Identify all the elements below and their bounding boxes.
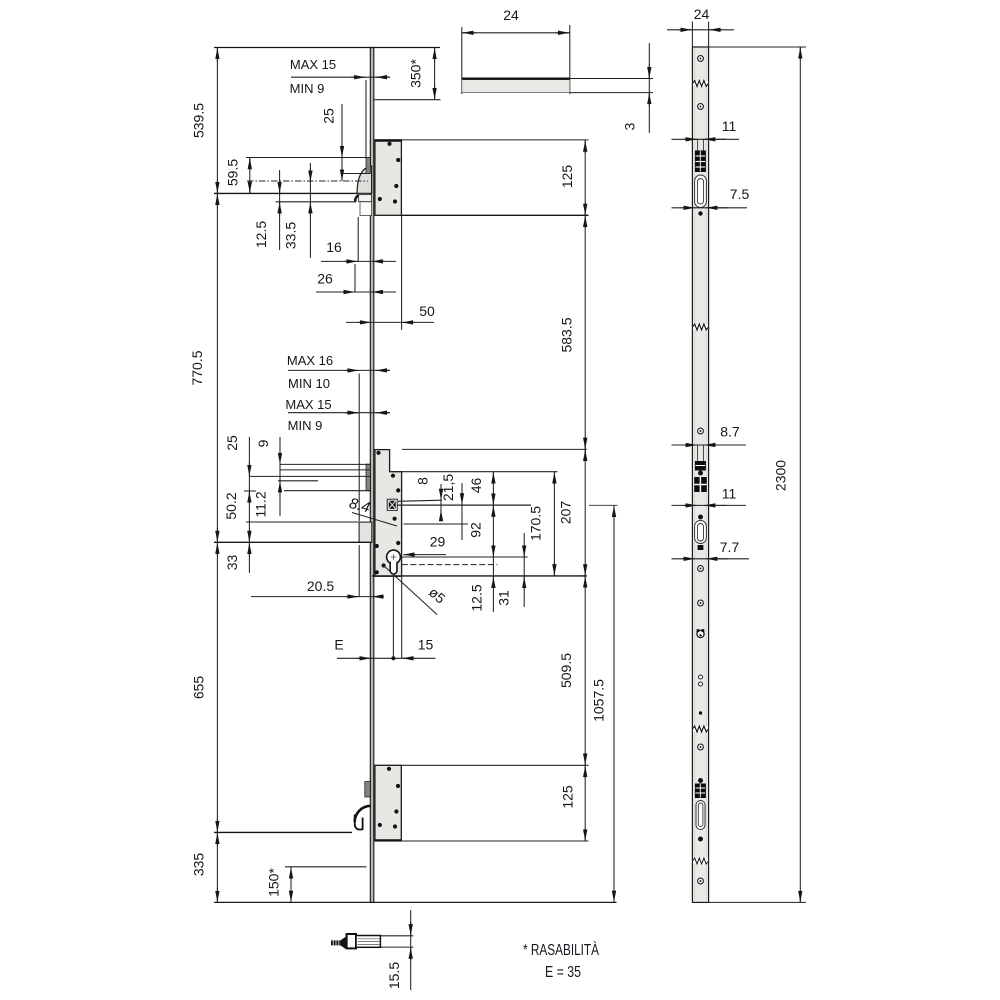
dim 11.2 arrow xyxy=(279,481,281,494)
deadbolt top line xyxy=(246,521,359,523)
svg-text:26: 26 xyxy=(317,271,333,287)
ext lines thickness xyxy=(570,78,653,80)
ext line deadbolt face xyxy=(358,374,360,522)
arrow pair 542.3 xyxy=(216,528,218,542)
mid hook pattern xyxy=(694,477,707,492)
line 350 bottom xyxy=(374,99,440,101)
top slot stadium xyxy=(695,175,707,208)
svg-text:2300: 2300 xyxy=(773,460,789,491)
svg-text:170.5: 170.5 xyxy=(528,506,544,541)
handle follower square xyxy=(387,499,397,510)
svg-text:1057.5: 1057.5 xyxy=(591,679,607,722)
svg-text:33.5: 33.5 xyxy=(283,222,299,249)
small circles pair xyxy=(699,675,703,679)
svg-text:* RASABILITÀ: * RASABILITÀ xyxy=(523,940,599,959)
mid slot stadium xyxy=(695,521,707,544)
svg-text:16: 16 xyxy=(326,239,342,255)
svg-text:21,5: 21,5 xyxy=(440,474,456,501)
faceplate edge view xyxy=(370,48,374,903)
aux latch 2 xyxy=(366,464,370,491)
break line 2 xyxy=(693,325,708,330)
dim 2300 xyxy=(709,46,806,48)
svg-text:8.7: 8.7 xyxy=(720,424,740,440)
svg-text:MIN 9: MIN 9 xyxy=(288,418,323,433)
svg-text:46: 46 xyxy=(468,478,484,494)
svg-text:92: 92 xyxy=(468,522,484,538)
svg-text:11: 11 xyxy=(722,118,737,134)
dim line MAX15/MIN9 xyxy=(291,76,390,78)
svg-text:MAX 15: MAX 15 xyxy=(290,57,336,72)
bottom bolt front xyxy=(695,784,706,799)
arrow pair 193.4 xyxy=(216,180,218,194)
small square below slot xyxy=(698,545,704,550)
svg-text:59.5: 59.5 xyxy=(225,159,241,186)
overall bottom line xyxy=(214,901,617,903)
faceplate strip body xyxy=(692,47,708,902)
top latch slot edges xyxy=(697,140,699,163)
svg-text:509.5: 509.5 xyxy=(558,653,574,688)
svg-text:MIN 10: MIN 10 xyxy=(288,376,330,391)
svg-text:12.5: 12.5 xyxy=(469,584,485,611)
plate section xyxy=(462,79,570,92)
aux latch2 lines xyxy=(280,463,371,465)
bottom box rivets xyxy=(378,767,400,829)
svg-text:29: 29 xyxy=(430,534,446,550)
svg-text:11: 11 xyxy=(722,486,737,502)
case step line ext xyxy=(390,471,558,473)
svg-text:50: 50 xyxy=(419,303,435,319)
top box rivets xyxy=(378,142,401,204)
cylinder center line xyxy=(402,556,528,558)
svg-text:539.5: 539.5 xyxy=(191,103,207,138)
line 150 ref xyxy=(285,866,367,868)
bottom box top line ext xyxy=(401,764,588,766)
svg-text:8: 8 xyxy=(415,477,431,485)
case top line ext xyxy=(402,448,587,450)
arrow top xyxy=(216,48,218,62)
svg-text:207: 207 xyxy=(558,501,574,525)
svg-text:MIN 9: MIN 9 xyxy=(290,81,325,96)
latch bolt 1 xyxy=(357,166,372,193)
screw holes xyxy=(698,56,704,884)
svg-text:7.7: 7.7 xyxy=(720,539,740,555)
boundary line deadbolt bottom xyxy=(214,541,372,543)
svg-text:MAX 15: MAX 15 xyxy=(285,397,331,412)
break line 3 xyxy=(693,727,708,732)
svg-text:335: 335 xyxy=(191,853,207,877)
top line xyxy=(214,47,440,49)
break line 1 xyxy=(693,81,708,86)
euro cylinder xyxy=(387,550,401,564)
case bottom line ext xyxy=(372,575,587,577)
svg-text:3: 3 xyxy=(622,122,638,130)
svg-text:E = 35: E = 35 xyxy=(545,964,581,981)
mid slot edges xyxy=(697,445,699,461)
top latch bolt front xyxy=(695,151,706,173)
svg-text:50.2: 50.2 xyxy=(223,492,239,519)
svg-text:MAX 16: MAX 16 xyxy=(287,353,333,368)
dim line MAX15/MIN9 xyxy=(288,412,390,414)
svg-text:15: 15 xyxy=(418,637,434,653)
top box bottom line ext xyxy=(401,214,588,216)
svg-text:7.5: 7.5 xyxy=(730,186,750,202)
follower axis line xyxy=(398,504,532,506)
small dots xyxy=(698,211,703,841)
mid bolt front xyxy=(695,461,706,471)
latch center line xyxy=(247,180,368,182)
bottom strike box xyxy=(375,765,401,841)
pin1 bottom line xyxy=(276,201,357,203)
arrow bottom xyxy=(216,888,218,902)
ext line aux latch1 face xyxy=(365,80,367,157)
boundary line latch1 bottom xyxy=(214,192,357,194)
deadbolt xyxy=(359,522,372,542)
svg-text:33: 33 xyxy=(224,555,240,571)
svg-text:25: 25 xyxy=(321,108,337,124)
svg-text:9: 9 xyxy=(255,439,271,447)
main lock case xyxy=(375,450,402,577)
svg-text:350*: 350* xyxy=(408,59,424,88)
svg-text:24: 24 xyxy=(503,7,519,23)
bottom hook bolt xyxy=(355,806,371,822)
dim line 24 xyxy=(462,32,570,34)
aux latch 3 xyxy=(365,782,371,798)
svg-text:655: 655 xyxy=(191,676,207,700)
svg-text:25: 25 xyxy=(224,435,240,451)
svg-text:E: E xyxy=(334,637,343,653)
svg-text:583.5: 583.5 xyxy=(559,317,575,352)
leader diam 5 xyxy=(384,566,438,615)
boundary line hook bottom xyxy=(214,831,352,833)
svg-text:150*: 150* xyxy=(266,868,282,897)
svg-text:24: 24 xyxy=(694,6,710,22)
cylinder hole icon xyxy=(697,630,704,637)
top box top line ext xyxy=(401,139,588,141)
aux latch 1 xyxy=(366,158,370,174)
svg-text:15.5: 15.5 xyxy=(386,962,402,989)
overall left dimension line xyxy=(216,48,218,903)
ext line case width xyxy=(401,216,403,330)
aux latch1 bottom line xyxy=(343,173,370,175)
svg-text:770.5: 770.5 xyxy=(189,350,205,385)
svg-text:12.5: 12.5 xyxy=(253,221,269,248)
ext lines xyxy=(461,27,463,94)
svg-text:20.5: 20.5 xyxy=(307,578,334,594)
pin ext lines xyxy=(380,935,413,937)
svg-text:11.2: 11.2 xyxy=(253,491,269,517)
aux latch1 top line xyxy=(246,157,370,159)
bottom rod pin detail xyxy=(331,934,380,949)
bottom box bottom line ext xyxy=(401,840,588,842)
top strike box xyxy=(375,140,402,215)
bottom slot stadium xyxy=(696,801,705,830)
latch pin 1 xyxy=(358,195,371,202)
svg-text:125: 125 xyxy=(560,785,576,809)
break line 4 xyxy=(693,859,708,864)
case rivets xyxy=(375,451,401,575)
svg-text:125: 125 xyxy=(559,165,575,189)
arrow pair 832.4 xyxy=(216,819,218,833)
dim line MAX16/MIN10 xyxy=(288,369,390,371)
svg-text:31: 31 xyxy=(496,590,512,606)
dashed line below cylinder xyxy=(402,564,498,566)
